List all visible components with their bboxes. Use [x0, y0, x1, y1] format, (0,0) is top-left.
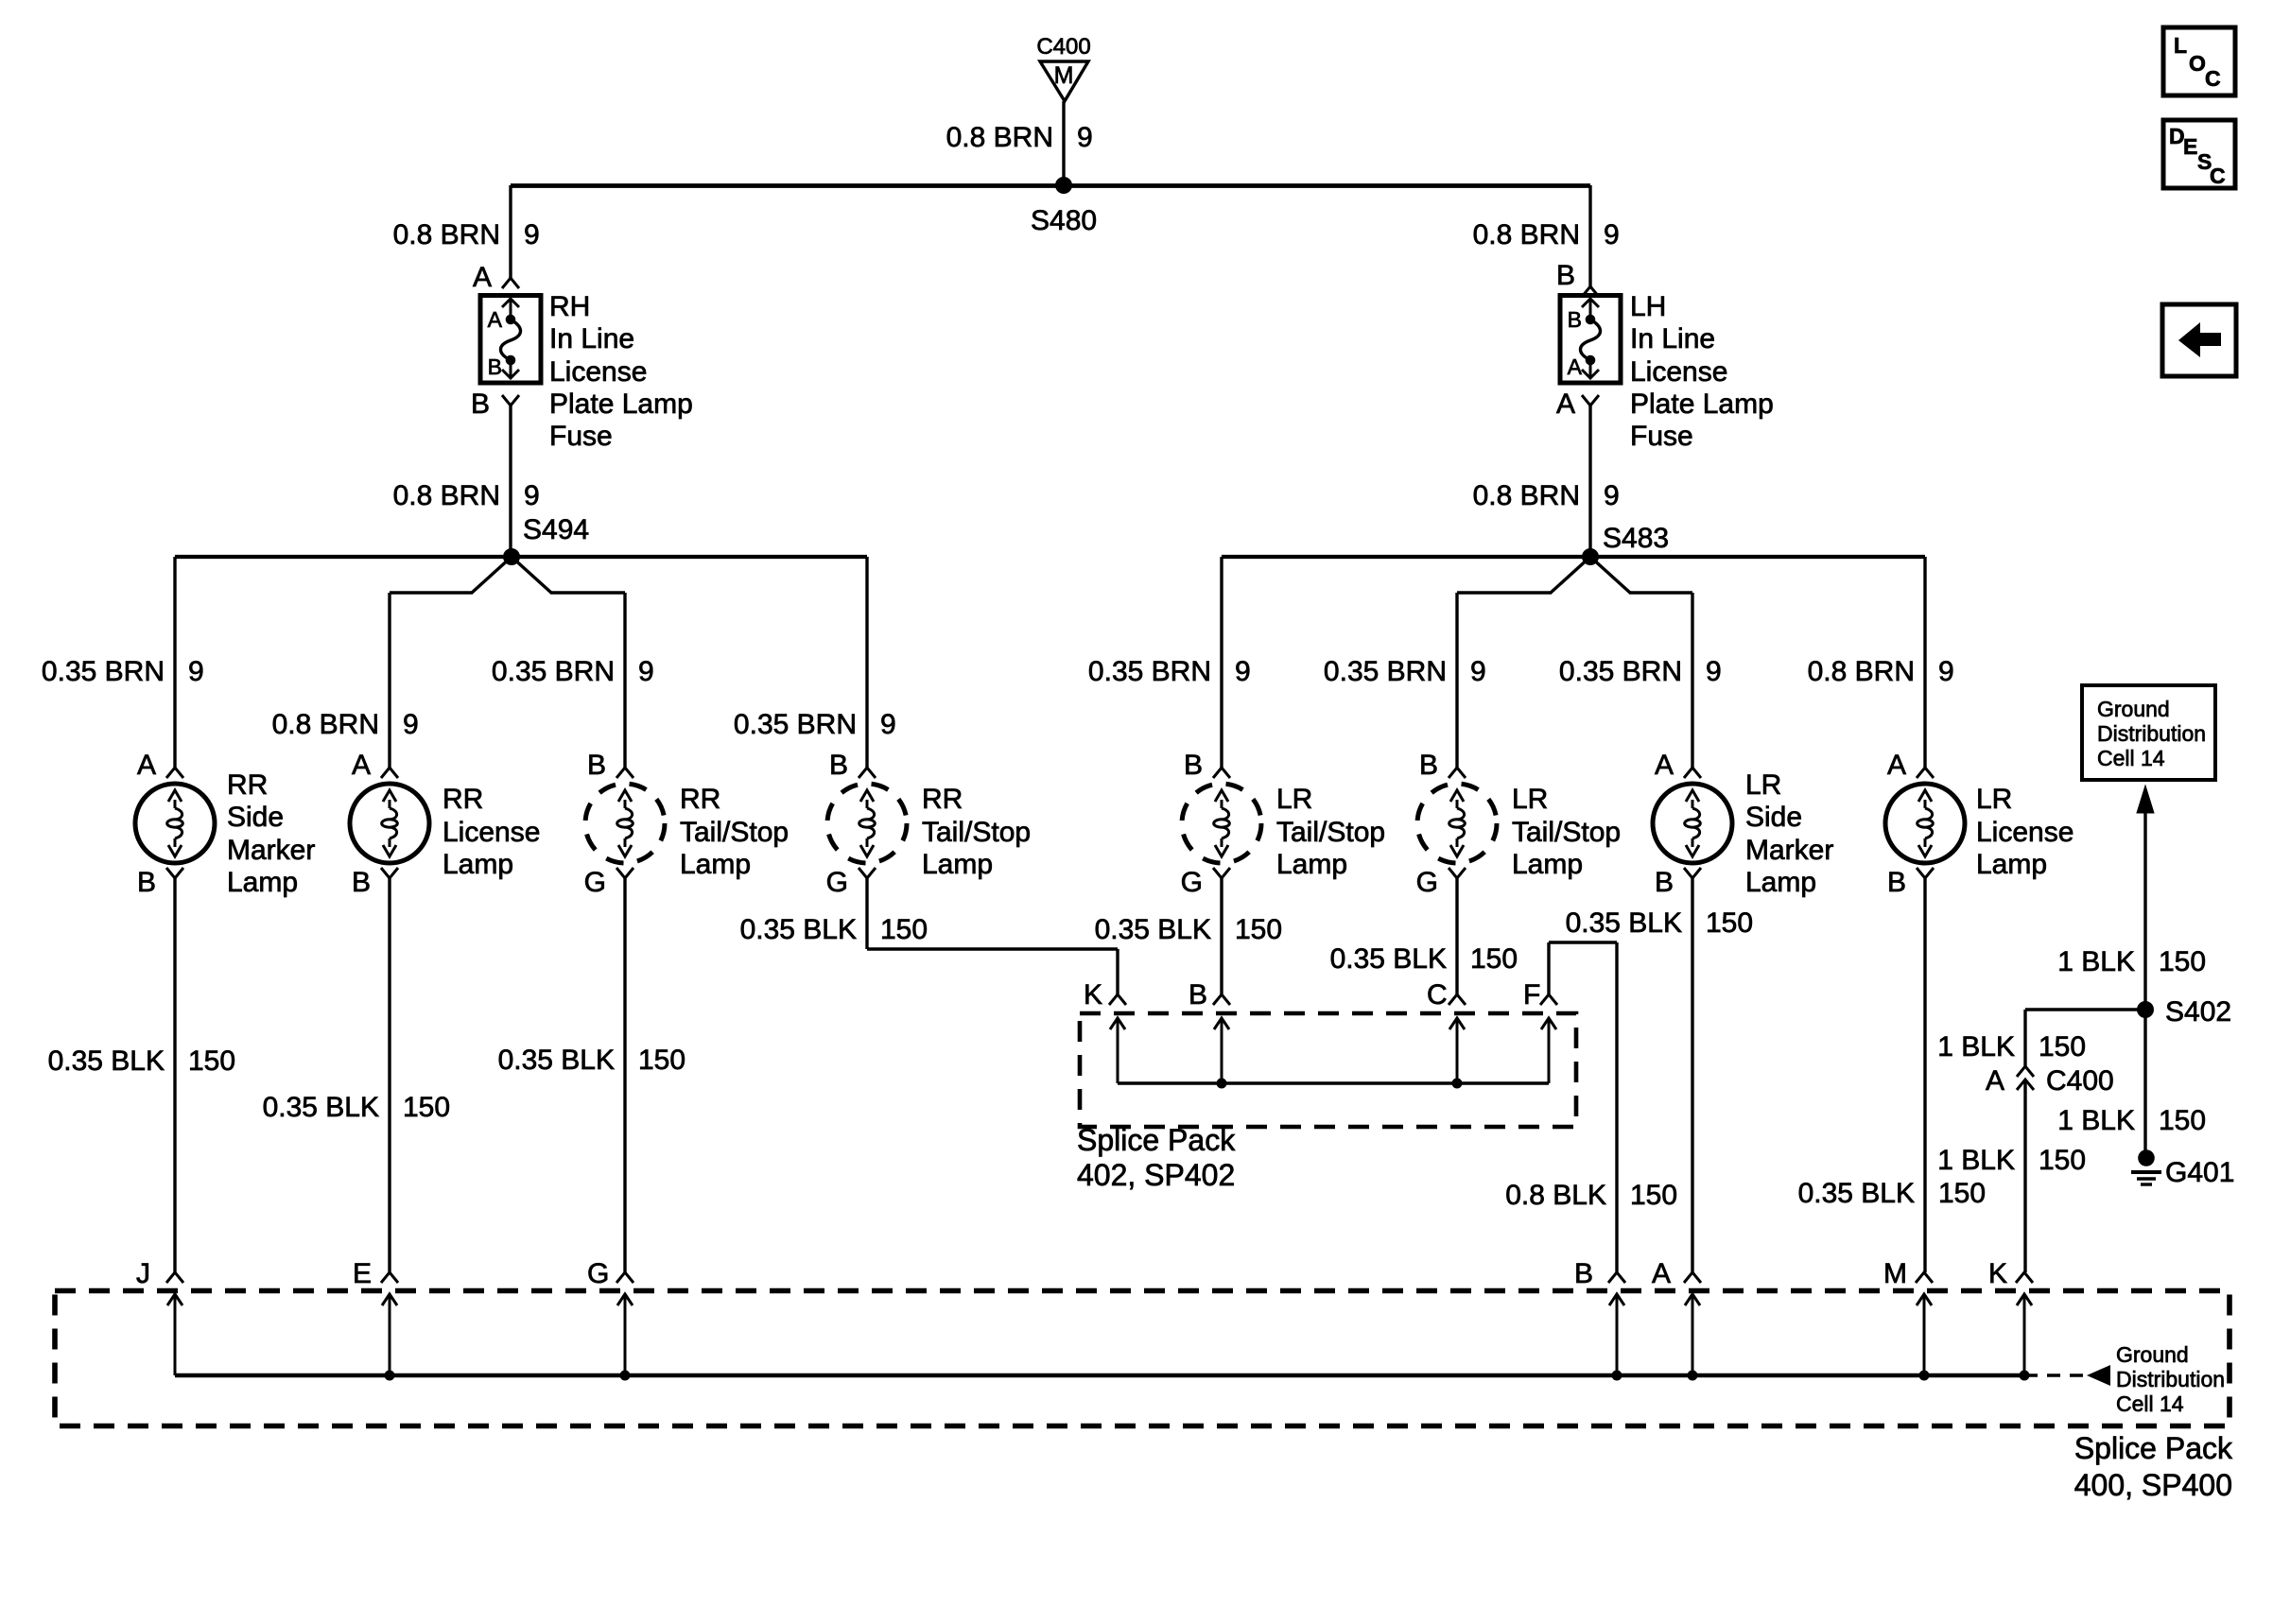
svg-text:0.8 BRN: 0.8 BRN [393, 219, 500, 251]
svg-text:G: G [584, 867, 606, 898]
svg-text:A: A [1887, 750, 1906, 781]
svg-text:Lamp: Lamp [1276, 849, 1347, 880]
svg-text:M: M [1054, 62, 1074, 89]
svg-text:K: K [1988, 1258, 2007, 1289]
svg-text:C: C [1427, 979, 1448, 1011]
svg-text:E: E [2183, 134, 2197, 159]
svg-text:O: O [2189, 51, 2206, 76]
svg-text:0.35 BLK: 0.35 BLK [1330, 943, 1447, 975]
svg-text:9: 9 [1077, 122, 1093, 153]
svg-text:S402: S402 [2165, 996, 2231, 1028]
svg-text:Cell 14: Cell 14 [2116, 1391, 2184, 1416]
svg-text:A: A [473, 262, 492, 293]
svg-text:S480: S480 [1031, 205, 1097, 236]
svg-text:Lamp: Lamp [227, 867, 298, 898]
svg-text:RR: RR [680, 784, 720, 815]
svg-text:150: 150 [1470, 943, 1518, 975]
svg-text:0.35 BLK: 0.35 BLK [498, 1045, 615, 1076]
svg-text:Tail/Stop: Tail/Stop [680, 817, 789, 848]
svg-text:0.35 BRN: 0.35 BRN [1324, 656, 1447, 687]
svg-text:A: A [1556, 389, 1575, 420]
svg-text:Lamp: Lamp [442, 849, 513, 880]
svg-text:0.35 BRN: 0.35 BRN [1559, 656, 1682, 687]
svg-text:0.8 BRN: 0.8 BRN [272, 709, 379, 740]
svg-text:B: B [587, 750, 606, 781]
svg-text:LR: LR [1745, 769, 1781, 801]
svg-text:Distribution: Distribution [2116, 1367, 2225, 1391]
svg-text:B: B [1574, 1258, 1593, 1289]
svg-text:License: License [1630, 356, 1727, 388]
svg-text:150: 150 [188, 1045, 235, 1077]
svg-text:A: A [1568, 354, 1583, 379]
svg-text:0.8 BRN: 0.8 BRN [1473, 480, 1580, 511]
svg-text:B: B [829, 750, 848, 781]
svg-text:0.35 BLK: 0.35 BLK [1566, 907, 1682, 939]
svg-text:G: G [587, 1258, 609, 1289]
svg-text:Lamp: Lamp [1745, 867, 1816, 898]
svg-text:9: 9 [188, 656, 204, 687]
svg-text:LH: LH [1630, 291, 1666, 322]
svg-text:9: 9 [403, 709, 419, 740]
svg-text:150: 150 [880, 914, 928, 945]
svg-text:0.8 BRN: 0.8 BRN [946, 122, 1053, 153]
svg-text:License: License [442, 817, 540, 848]
svg-text:0.8 BLK: 0.8 BLK [1505, 1180, 1606, 1211]
svg-text:150: 150 [2159, 1105, 2206, 1136]
svg-text:G: G [826, 867, 848, 898]
svg-text:Splice Pack: Splice Pack [1077, 1123, 1236, 1157]
svg-text:LR: LR [1976, 784, 2012, 815]
svg-text:Tail/Stop: Tail/Stop [922, 817, 1031, 848]
svg-text:0.35 BLK: 0.35 BLK [740, 914, 857, 945]
svg-text:150: 150 [403, 1092, 450, 1123]
svg-text:9: 9 [1706, 656, 1722, 687]
svg-text:0.35 BRN: 0.35 BRN [42, 656, 165, 687]
svg-text:150: 150 [1938, 1178, 1986, 1209]
svg-text:Distribution: Distribution [2097, 721, 2206, 746]
svg-text:9: 9 [880, 709, 896, 740]
svg-text:Lamp: Lamp [1976, 849, 2047, 880]
svg-text:G401: G401 [2165, 1157, 2234, 1188]
svg-text:Ground: Ground [2116, 1342, 2189, 1367]
svg-text:RR: RR [442, 784, 483, 815]
svg-text:Marker: Marker [1745, 835, 1833, 866]
svg-text:J: J [136, 1258, 150, 1289]
svg-text:A: A [488, 307, 503, 332]
svg-text:K: K [1084, 979, 1102, 1011]
svg-text:0.8 BRN: 0.8 BRN [393, 480, 500, 511]
svg-text:0.8 BRN: 0.8 BRN [1473, 219, 1580, 251]
svg-text:9: 9 [524, 480, 540, 511]
svg-text:B: B [1556, 260, 1575, 291]
svg-text:B: B [1887, 867, 1906, 898]
svg-text:RR: RR [227, 769, 268, 801]
svg-text:S483: S483 [1603, 523, 1669, 554]
svg-text:150: 150 [2159, 946, 2206, 977]
svg-text:150: 150 [1630, 1180, 1677, 1211]
svg-text:C: C [2205, 66, 2221, 91]
svg-text:A: A [1655, 750, 1674, 781]
svg-text:9: 9 [1604, 219, 1620, 251]
svg-text:0.35 BRN: 0.35 BRN [1088, 656, 1211, 687]
svg-text:Plate Lamp: Plate Lamp [549, 389, 693, 420]
svg-text:0.35 BLK: 0.35 BLK [1095, 914, 1211, 945]
svg-text:G: G [1416, 867, 1438, 898]
svg-text:LR: LR [1276, 784, 1312, 815]
svg-text:B: B [471, 389, 490, 420]
svg-text:150: 150 [2039, 1031, 2086, 1063]
svg-text:LR: LR [1512, 784, 1548, 815]
svg-text:400, SP400: 400, SP400 [2074, 1468, 2232, 1502]
svg-text:L: L [2174, 33, 2187, 58]
svg-text:C: C [2210, 164, 2226, 188]
svg-text:B: B [137, 867, 156, 898]
svg-text:0.35 BLK: 0.35 BLK [48, 1045, 165, 1077]
svg-text:1 BLK: 1 BLK [1937, 1145, 2015, 1176]
svg-text:B: B [352, 867, 371, 898]
svg-text:0.35 BRN: 0.35 BRN [492, 656, 615, 687]
svg-text:Lamp: Lamp [1512, 849, 1583, 880]
svg-text:A: A [352, 750, 371, 781]
svg-text:A: A [1652, 1258, 1671, 1289]
svg-text:Marker: Marker [227, 835, 315, 866]
svg-text:1 BLK: 1 BLK [2057, 1105, 2135, 1136]
svg-text:B: B [1655, 867, 1674, 898]
svg-text:RH: RH [549, 291, 590, 322]
svg-text:E: E [353, 1258, 372, 1289]
svg-text:A: A [137, 750, 156, 781]
svg-text:9: 9 [524, 219, 540, 251]
svg-text:G: G [1181, 867, 1203, 898]
svg-text:B: B [1568, 307, 1582, 332]
svg-text:0.35 BLK: 0.35 BLK [1798, 1178, 1915, 1209]
svg-text:C400: C400 [2046, 1065, 2114, 1097]
svg-text:Lamp: Lamp [922, 849, 993, 880]
svg-text:Cell 14: Cell 14 [2097, 746, 2165, 770]
svg-text:Tail/Stop: Tail/Stop [1512, 817, 1621, 848]
svg-text:License: License [1976, 817, 2073, 848]
svg-text:Lamp: Lamp [680, 849, 751, 880]
svg-text:1 BLK: 1 BLK [2057, 946, 2135, 977]
svg-text:9: 9 [1235, 656, 1251, 687]
svg-text:Fuse: Fuse [1630, 421, 1693, 452]
svg-text:Ground: Ground [2097, 697, 2170, 721]
svg-text:0.35 BRN: 0.35 BRN [734, 709, 857, 740]
svg-text:150: 150 [1235, 914, 1282, 945]
svg-text:150: 150 [1706, 907, 1753, 939]
svg-text:Fuse: Fuse [549, 421, 613, 452]
svg-text:1 BLK: 1 BLK [1937, 1031, 2015, 1063]
svg-text:Splice Pack: Splice Pack [2074, 1431, 2233, 1465]
svg-text:Tail/Stop: Tail/Stop [1276, 817, 1385, 848]
svg-text:9: 9 [638, 656, 654, 687]
svg-text:License: License [549, 356, 647, 388]
svg-text:Side: Side [227, 802, 284, 833]
svg-text:Plate Lamp: Plate Lamp [1630, 389, 1774, 420]
svg-text:150: 150 [638, 1045, 685, 1076]
svg-text:A: A [1986, 1065, 2004, 1097]
svg-text:RR: RR [922, 784, 963, 815]
svg-text:B: B [488, 354, 502, 379]
svg-text:C400: C400 [1036, 34, 1090, 60]
svg-text:In Line: In Line [549, 323, 634, 354]
svg-text:B: B [1189, 979, 1207, 1011]
svg-text:S494: S494 [523, 514, 589, 545]
svg-text:9: 9 [1604, 480, 1620, 511]
svg-text:B: B [1419, 750, 1438, 781]
svg-text:M: M [1883, 1258, 1907, 1289]
svg-text:150: 150 [2039, 1145, 2086, 1176]
svg-text:0.8 BRN: 0.8 BRN [1808, 656, 1915, 687]
svg-text:9: 9 [1938, 656, 1954, 687]
svg-text:402, SP402: 402, SP402 [1077, 1158, 1235, 1192]
svg-text:In Line: In Line [1630, 323, 1715, 354]
svg-text:B: B [1184, 750, 1203, 781]
svg-text:0.35 BLK: 0.35 BLK [263, 1092, 379, 1123]
svg-text:F: F [1523, 979, 1540, 1011]
svg-text:Side: Side [1745, 802, 1802, 833]
svg-text:9: 9 [1470, 656, 1486, 687]
